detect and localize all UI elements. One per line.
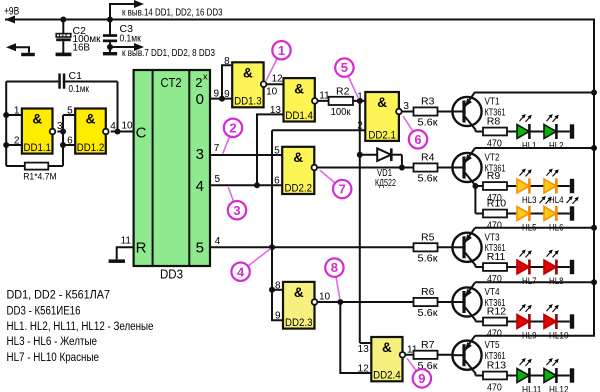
svg-text:0.1мк: 0.1мк — [69, 83, 90, 95]
LED HL7 — [517, 250, 537, 287]
junction DD2.3-out/DD2.4 — [337, 299, 343, 305]
svg-text:DD2.2: DD2.2 — [285, 182, 313, 194]
svg-text:100к: 100к — [331, 106, 351, 118]
op-amp gate DD1.3 — [232, 62, 263, 107]
svg-text:5: 5 — [274, 146, 280, 157]
junction pin6 — [60, 142, 66, 148]
wire VT2 collector — [474, 185, 476, 214]
svg-text:3: 3 — [403, 101, 409, 112]
svg-text:HL1. HL2, HL11, HL12 - Зеленые: HL1. HL2, HL11, HL12 - Зеленые — [7, 319, 154, 333]
node legend text — [7, 288, 154, 364]
svg-text:R12: R12 — [487, 306, 506, 318]
junction out5/bus — [269, 244, 275, 250]
resistor R7 — [414, 351, 438, 359]
wire R11 LED row — [475, 266, 569, 268]
resistor R10 — [483, 210, 507, 218]
svg-text:5.6к: 5.6к — [418, 307, 438, 319]
svg-text:&: & — [32, 112, 42, 127]
resistor R6 — [414, 298, 438, 306]
ground R8 chain termination — [570, 124, 574, 138]
wire VT2 emitter rail — [475, 147, 594, 149]
svg-text:CT2: CT2 — [161, 75, 182, 90]
junction out4/pin13 — [254, 182, 260, 188]
transistor VT5 — [452, 336, 505, 374]
ground R11 chain termination — [570, 260, 574, 274]
svg-text:6: 6 — [274, 175, 280, 186]
svg-text:&: & — [294, 285, 304, 300]
node marker line 7 — [320, 170, 335, 183]
wire DD2.2 out to VT2 base — [317, 167, 452, 169]
LED HL5 — [517, 196, 552, 233]
LED HL2 — [544, 114, 564, 151]
svg-text:к выв.7 DD1, DD2, 8 DD3: к выв.7 DD1, DD2, 8 DD3 — [122, 47, 215, 59]
svg-text:&: & — [243, 66, 253, 81]
svg-text:12: 12 — [358, 364, 370, 375]
svg-text:DD1.3: DD1.3 — [234, 96, 262, 108]
svg-text:&: & — [382, 340, 392, 355]
wire DD2.3 pin8 lead — [272, 289, 283, 291]
op-amp counter DD3 — [134, 70, 210, 266]
resistor R12 — [483, 318, 507, 326]
svg-text:4: 4 — [215, 236, 221, 247]
node marker 6 — [409, 130, 427, 148]
ground R12 chain termination — [570, 314, 574, 328]
wire DD2.4 out to VT5 base — [405, 354, 452, 356]
svg-text:7: 7 — [214, 143, 220, 154]
node marker 9 — [413, 369, 431, 387]
wire R13 LED row — [475, 375, 569, 377]
svg-text:DD1.1: DD1.1 — [23, 142, 51, 154]
resistor R3 — [414, 107, 438, 115]
LED HL12 — [544, 358, 569, 392]
wire DD2.4 pin13 lead — [360, 342, 372, 344]
op-amp gate DD2.3 — [283, 282, 315, 329]
diode VD1 — [360, 154, 377, 156]
svg-text:R6: R6 — [421, 286, 435, 298]
wire DD1.1 pin2 lead — [6, 144, 22, 146]
svg-text:470: 470 — [487, 327, 502, 339]
svg-text:8: 8 — [224, 56, 230, 67]
svg-text:3: 3 — [196, 146, 204, 163]
capacitor C3 — [109, 20, 111, 35]
wire DD1.3 out to DD1.4 — [266, 83, 283, 85]
transistor VT3 — [452, 228, 505, 265]
svg-text:DD1, DD2 - К561ЛА7: DD1, DD2 - К561ЛА7 — [7, 288, 111, 302]
svg-text:7: 7 — [339, 182, 346, 197]
svg-text:5.6к: 5.6к — [418, 117, 438, 129]
svg-text:0: 0 — [196, 91, 204, 108]
wire branch to pin-14 arrow — [110, 4, 137, 20]
svg-text:R8: R8 — [487, 116, 501, 128]
junction VT1 emitter rail — [591, 90, 597, 96]
svg-text:R3: R3 — [421, 96, 435, 108]
svg-text:16В: 16В — [73, 42, 91, 54]
svg-text:HL10: HL10 — [549, 330, 569, 341]
wire +9V top rail and right vertical rail — [5, 20, 594, 336]
svg-text:11: 11 — [121, 236, 132, 247]
node marker 5 — [335, 58, 353, 76]
node marker 8 — [325, 258, 343, 276]
wire VT3 emitter rail — [475, 227, 594, 229]
wire DD1.2 pin5 lead — [63, 114, 75, 116]
junction pin1 — [3, 112, 9, 118]
svg-text:R2: R2 — [336, 86, 350, 98]
svg-text:1: 1 — [278, 43, 285, 58]
svg-text:12: 12 — [272, 74, 284, 85]
wire signal-4 vertical bus — [272, 130, 283, 320]
svg-text:9: 9 — [418, 371, 425, 386]
wire out 2^4 — [210, 184, 282, 186]
svg-text:R: R — [136, 240, 147, 257]
wire DD1.1 pin1 lead — [6, 114, 22, 116]
op-amp gate DD1.4 — [284, 78, 315, 121]
svg-text:6: 6 — [414, 132, 421, 147]
node marker 2 — [224, 119, 242, 137]
node marker 7 — [333, 180, 351, 198]
junction out0/DD1.3 — [219, 96, 225, 102]
svg-text:470: 470 — [487, 381, 502, 392]
svg-text:R9: R9 — [487, 170, 501, 182]
resistor R9 — [483, 182, 507, 190]
transistor VT4 — [452, 283, 505, 321]
op-amp gate DD1.1 — [22, 109, 53, 154]
junction C1/DD1.2-out — [115, 129, 121, 135]
wire VT3 collector — [474, 265, 476, 267]
wire VT4 collector — [474, 320, 476, 322]
wire R10 LED row — [475, 213, 569, 215]
op-amp gate DD1.2 — [75, 109, 106, 154]
svg-text:C1: C1 — [69, 70, 83, 82]
resistor R4 — [414, 163, 438, 171]
svg-text:R11: R11 — [487, 251, 506, 263]
svg-text:2: 2 — [229, 120, 236, 135]
junction VT2 emitter rail — [591, 145, 597, 151]
wire R12 LED row — [475, 321, 569, 323]
svg-text:R1*4.7М: R1*4.7М — [23, 172, 57, 183]
svg-text:C: C — [136, 125, 147, 142]
node marker 4 — [231, 263, 249, 281]
svg-text:9: 9 — [275, 311, 281, 322]
LED HL10 — [544, 304, 569, 341]
wire DD2.3 out to VT4 base — [317, 301, 452, 303]
svg-text:2: 2 — [14, 136, 20, 147]
resistor R8 — [483, 128, 507, 136]
node marker line 2 — [223, 136, 230, 153]
wire out 2^3 — [210, 154, 282, 156]
junction rail/C3 — [107, 17, 113, 23]
junction VT2 collector split — [472, 183, 478, 189]
LED HL8 — [544, 250, 564, 287]
node marker line 9 — [407, 358, 416, 371]
svg-text:DD2.4: DD2.4 — [373, 370, 401, 382]
resistor R13 — [483, 372, 507, 380]
svg-text:13: 13 — [358, 344, 370, 355]
ground R13 chain termination — [570, 368, 574, 382]
transistor VT1 — [452, 92, 505, 130]
svg-text:4: 4 — [237, 264, 245, 279]
op-amp gate DD2.4 — [371, 337, 402, 381]
resistor R2 — [329, 97, 353, 105]
junction diode cathode/R4 — [399, 165, 405, 171]
svg-text:&: & — [86, 112, 96, 127]
svg-text:к выв.14 DD1, DD2, 16 DD3: к выв.14 DD1, DD2, 16 DD3 — [122, 7, 223, 19]
node marker line 6 — [403, 116, 413, 131]
svg-text:R4: R4 — [421, 152, 435, 164]
svg-text:КД522: КД522 — [375, 177, 396, 189]
svg-text:10: 10 — [122, 121, 134, 132]
LED HL6 — [544, 196, 579, 233]
wire DD1.4 pin13 to out4 — [257, 114, 284, 185]
op-amp gate DD2.1 — [365, 92, 399, 141]
wire out 2^5 to VT3 base — [210, 246, 452, 248]
junction C3/0V arrow — [107, 44, 113, 50]
wire VT1 emitter rail — [475, 92, 594, 94]
ground R9 chain termination — [570, 179, 574, 193]
svg-text:6: 6 — [67, 136, 73, 147]
svg-text:5: 5 — [196, 240, 204, 257]
op-amp gate DD2.2 — [282, 147, 314, 194]
wire left vertical input bus — [5, 82, 7, 167]
wire VT5 collector — [474, 373, 476, 376]
LED HL4 — [544, 169, 564, 206]
LED HL11 — [517, 358, 542, 392]
wire DD2.1 out to VT1 base — [402, 111, 452, 113]
node marker line 1 — [266, 58, 277, 80]
junction rail/C2 — [60, 17, 66, 23]
wire DD3 R input — [117, 247, 134, 259]
svg-text:8: 8 — [331, 260, 338, 275]
junction DD1.1-out — [60, 129, 66, 135]
svg-text:DD2.3: DD2.3 — [285, 317, 313, 329]
svg-text:R7: R7 — [421, 339, 435, 351]
svg-text:DD1.2: DD1.2 — [77, 142, 105, 154]
svg-text:R10: R10 — [487, 198, 506, 210]
svg-text:3: 3 — [233, 203, 240, 218]
LED HL3 — [517, 169, 537, 206]
resistor R5 — [414, 243, 438, 251]
svg-text:10: 10 — [266, 87, 278, 98]
svg-text:10: 10 — [319, 292, 331, 303]
svg-text:HL9: HL9 — [522, 330, 537, 341]
wire R8 LED row — [475, 131, 569, 133]
junction VT3 emitter rail — [591, 225, 597, 231]
svg-text:5: 5 — [215, 174, 221, 185]
svg-text:4: 4 — [196, 178, 204, 195]
ground R10 chain termination — [570, 206, 574, 220]
transistor VT2 — [452, 148, 505, 186]
svg-text:HL1: HL1 — [522, 140, 537, 151]
junction pin2 — [3, 142, 9, 148]
junction bus/DD2.3 pin8 — [269, 287, 275, 293]
wire DD1.3 input tie — [222, 65, 232, 98]
svg-text:&: & — [293, 150, 303, 165]
svg-text:8: 8 — [275, 280, 281, 291]
node marker line 8 — [336, 277, 340, 300]
svg-text:x: x — [203, 72, 208, 82]
junction R2/DD2.1 — [357, 98, 363, 104]
svg-text:HL3 - HL6 - Желтые: HL3 - HL6 - Желтые — [7, 334, 98, 348]
svg-text:DD1.4: DD1.4 — [285, 110, 313, 122]
svg-text:470: 470 — [487, 219, 502, 231]
svg-text:HL12: HL12 — [549, 384, 569, 392]
node marker line 4 — [248, 249, 271, 267]
svg-text:HL3: HL3 — [522, 195, 537, 206]
svg-text:+9В: +9В — [4, 6, 19, 18]
wire gate-link vertical — [62, 115, 64, 166]
svg-text:&: & — [377, 95, 387, 110]
wire signal-5 vertical bus — [359, 101, 361, 343]
wire R9 LED row — [475, 185, 569, 187]
svg-text:HL7 - HL10 Красные: HL7 - HL10 Красные — [7, 350, 100, 364]
wire DD1.2 pin6 lead — [63, 144, 75, 146]
svg-text:9: 9 — [224, 89, 230, 100]
svg-text:DD2.1: DD2.1 — [368, 129, 396, 141]
wire VT4 emitter rail — [475, 281, 594, 283]
node marker 1 — [272, 41, 290, 59]
svg-text:1: 1 — [14, 106, 20, 117]
node marker line 3 — [228, 187, 233, 201]
svg-text:R13: R13 — [487, 360, 506, 372]
wire DD1.1 out to node — [57, 131, 63, 133]
junction VT4 emitter rail — [591, 279, 597, 285]
svg-text:5.6к: 5.6к — [418, 173, 438, 185]
svg-text:HL4: HL4 — [549, 195, 564, 206]
wire out 2^0 — [210, 98, 232, 100]
wire DD2.4 pin12 link — [340, 302, 371, 373]
capacitor C1 — [6, 81, 58, 83]
svg-text:0.1мк: 0.1мк — [120, 33, 142, 45]
resistor R1 — [6, 165, 25, 167]
svg-text:DD3: DD3 — [160, 268, 183, 282]
LED HL1 — [517, 114, 537, 151]
svg-text:2: 2 — [195, 75, 202, 90]
wire DD1.4 out to DD2.1 pin1 — [318, 100, 366, 102]
svg-text:5: 5 — [341, 60, 348, 75]
node marker 3 — [228, 201, 246, 219]
wire VT1 collector — [474, 129, 476, 132]
svg-text:R5: R5 — [421, 231, 435, 243]
resistor R11 — [483, 263, 507, 271]
capacitor C2 — [62, 20, 64, 35]
svg-text:HL11: HL11 — [522, 384, 542, 392]
svg-text:DD3 - К561ИЕ16: DD3 - К561ИЕ16 — [7, 303, 81, 317]
junction diode anode — [357, 152, 363, 158]
wire 0V arrow to pin-7 — [110, 46, 137, 48]
svg-text:5.6к: 5.6к — [418, 252, 438, 264]
svg-text:4: 4 — [110, 121, 116, 132]
LED HL9 — [517, 304, 537, 341]
svg-text:&: & — [294, 81, 304, 96]
node marker line 5 — [348, 76, 358, 99]
ground DD3 reset — [109, 259, 125, 263]
wire DD2.1 pin2 lead — [272, 129, 365, 131]
svg-text:HL2: HL2 — [549, 140, 564, 151]
ground left 0V terminal — [10, 47, 29, 53]
wire DD1.2 out to DD3.C — [111, 131, 134, 133]
svg-text:5: 5 — [67, 106, 73, 117]
